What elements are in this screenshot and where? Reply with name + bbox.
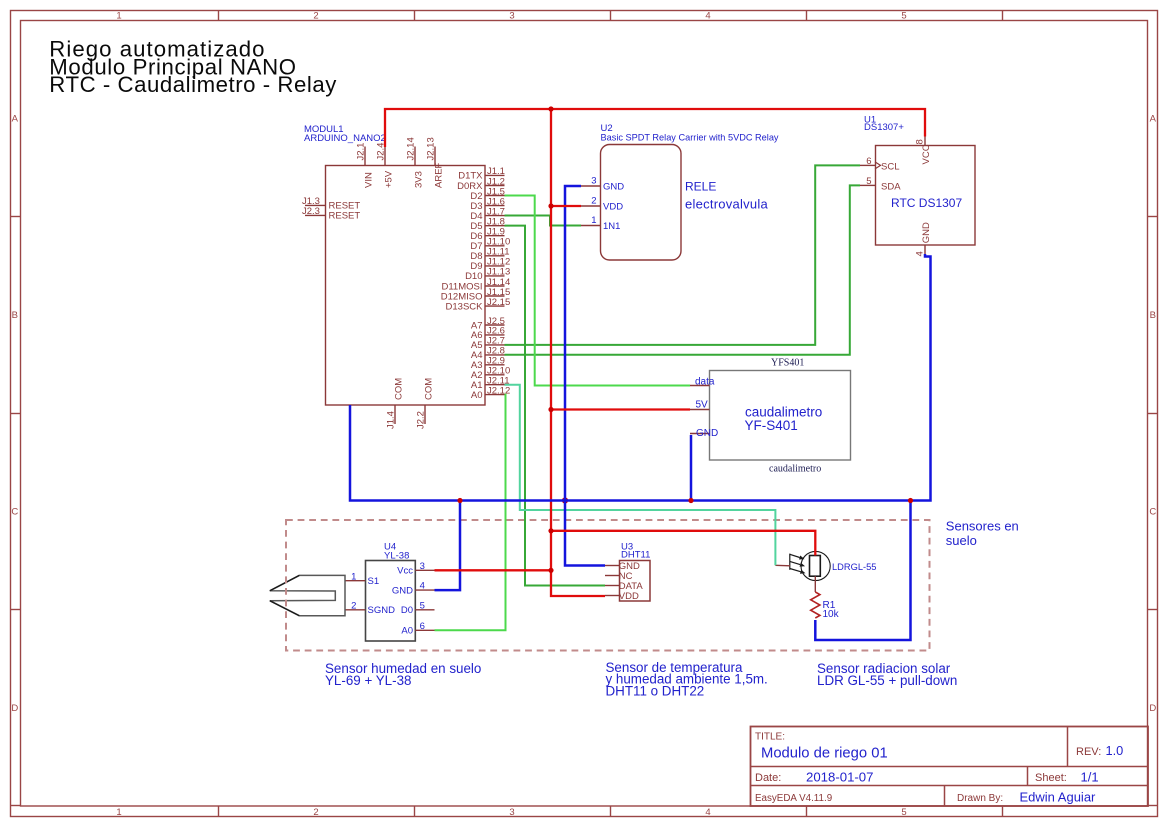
svg-text:1: 1 [591,215,596,226]
svg-text:C: C [1149,507,1156,518]
sensor board U4 YL-38 body [366,561,416,642]
junction red rail / U4 Vcc branch [548,568,553,573]
svg-text:Edwin Aguiar: Edwin Aguiar [1020,790,1097,805]
svg-text:8: 8 [915,139,926,144]
MODUL1 right digital pins D1TX..D13SCK with labels J1.1..J2.15 [441,166,510,312]
svg-text:REV:: REV: [1076,746,1101,758]
svg-text:VCC: VCC [921,144,932,164]
caption Sensor de temperatura [606,660,768,699]
svg-text:J2.1: J2.1 [356,143,367,161]
svg-text:YL-69 + YL-38: YL-69 + YL-38 [325,673,411,688]
U4 right pins 3 Vcc / 4 GND / 5 D0 / 6 A0 [392,561,435,637]
wire green A5 to U1 SCL [505,165,861,345]
svg-text:DS1307+: DS1307+ [864,122,904,133]
svg-text:GND: GND [603,181,624,192]
caption Sensor radiacion solar [817,661,957,688]
title block TITLE field [755,732,888,762]
svg-text:GND: GND [392,586,413,597]
svg-text:1: 1 [116,10,121,21]
svg-text:A0: A0 [401,626,413,637]
svg-text:AREF: AREF [433,162,444,188]
svg-text:RESET: RESET [329,211,361,222]
svg-text:5: 5 [901,807,906,818]
U1 pin 5 SDA [860,176,901,193]
svg-text:J2.2: J2.2 [416,411,427,429]
svg-text:1/1: 1/1 [1081,769,1099,784]
svg-text:4: 4 [705,807,710,818]
junction blue bus / U4 GND [457,498,462,503]
svg-text:J2.13: J2.13 [426,137,437,160]
svg-text:1: 1 [351,571,356,582]
YFS401 net name text caudalimetro YF-S401 [745,405,823,434]
svg-text:J2.15: J2.15 [487,297,510,308]
svg-text:RTC DS1307: RTC DS1307 [891,196,962,210]
title block [750,726,1148,806]
U3 reference labels [621,541,650,560]
svg-text:ARDUINO_NANO2: ARDUINO_NANO2 [304,133,386,144]
svg-text:YL-38: YL-38 [384,551,409,562]
svg-text:DHT11: DHT11 [621,550,650,561]
svg-text:COM: COM [423,378,434,400]
svg-text:5V: 5V [696,399,709,410]
svg-text:B: B [1150,310,1156,321]
title block Sheet field [1035,769,1099,784]
svg-text:4: 4 [420,581,425,592]
svg-text:A0: A0 [471,390,483,401]
svg-text:VDD: VDD [619,591,639,602]
svg-text:RTC - Caudalimetro - Relay: RTC - Caudalimetro - Relay [49,72,337,97]
svg-text:2018-01-07: 2018-01-07 [806,769,873,784]
svg-text:SGND: SGND [368,605,396,616]
wire blue U4 GND to bus [435,501,461,591]
wire green D4 to U2 1N1 [505,216,582,226]
svg-text:J2.12: J2.12 [487,385,510,396]
svg-text:10k: 10k [823,609,840,620]
U1 pin 4 GND bottom [915,222,932,256]
flow meter YFS401 body [710,371,851,461]
svg-text:B: B [12,310,18,321]
LDR pin stubs [775,565,815,592]
junction red rail / YFS401 5V [548,407,553,412]
svg-text:SDA: SDA [881,182,901,193]
svg-text:S1: S1 [368,576,380,587]
U1 net name text RTC DS1307 [891,196,962,210]
svg-text:D: D [1149,703,1156,714]
resistor R1 10k [811,592,840,620]
svg-text:D: D [11,703,18,714]
wire green D5 to U3 DATA [505,226,606,586]
wire light green A0 to U4 A0 [435,395,506,631]
wire red power rail vertical [551,109,605,596]
svg-text:Sensores en: Sensores en [946,519,1019,534]
wire blue U3 GND to bus [565,501,605,566]
MODUL1 right analog pins A7..A0 with labels J2.5..J2.12 [471,316,510,401]
svg-text:SCL: SCL [881,162,899,173]
wire green A4 to U1 SDA [505,185,861,354]
U2 pins 3 GND / 2 VDD / 1 1N1 [581,176,624,232]
title block Date field [755,769,873,784]
svg-text:RELE: RELE [685,180,716,194]
svg-text:2: 2 [591,196,596,207]
wire +5V top red bus from MODUL1 +5V to U1 VCC [385,109,925,147]
svg-text:YFS401: YFS401 [771,358,804,369]
svg-text:4: 4 [705,10,710,21]
svg-text:YF-S401: YF-S401 [745,418,798,433]
svg-text:GND: GND [696,428,718,439]
wire red branch to U4 Vcc [435,569,552,571]
svg-text:+5V: +5V [383,170,394,188]
svg-text:A: A [12,114,19,125]
svg-text:3: 3 [420,561,425,572]
U2 reference labels [601,123,779,143]
dashed region Sensores en suelo [286,519,1019,651]
title block EasyEDA version [755,793,832,804]
svg-text:Date:: Date: [755,772,781,784]
sensor U3 DHT11 body [620,561,651,602]
svg-text:3: 3 [509,807,514,818]
svg-text:caudalimetro: caudalimetro [769,464,821,475]
svg-text:Sheet:: Sheet: [1035,772,1067,784]
svg-text:J2.14: J2.14 [406,137,417,160]
svg-text:Modulo de riego 01: Modulo de riego 01 [761,746,888,762]
svg-text:GND: GND [921,222,932,243]
svg-text:VDD: VDD [603,201,623,212]
svg-text:1N1: 1N1 [603,221,620,232]
svg-text:DHT11 o DHT22: DHT11 o DHT22 [606,683,705,698]
U1 pin 8 VCC top [915,136,932,165]
soil probe fork symbol [270,575,345,615]
MODUL1 bottom pins COM COM with labels J1.4 J2.2 [386,378,435,429]
MODUL1 left RESET pins J1.3 J2.3 [302,196,360,222]
wire blue R1 bottom to bus [815,501,910,641]
svg-text:6: 6 [866,156,871,167]
MODUL1 top pins VIN +5V 3V3 AREF with labels J2.1 J2.4 J2.14 J2.13 [356,137,445,188]
svg-text:J2.3: J2.3 [302,206,320,217]
wire mint A1 to LDR [505,385,776,566]
U1 reference labels [864,115,904,133]
svg-text:5: 5 [420,600,425,611]
svg-text:5: 5 [866,176,871,187]
svg-text:1: 1 [116,807,121,818]
caption Sensor humedad en suelo [325,661,481,688]
svg-text:1.0: 1.0 [1106,743,1124,758]
svg-text:LDR GL-55 + pull-down: LDR GL-55 + pull-down [817,673,957,688]
svg-text:COM: COM [393,378,404,400]
svg-text:VIN: VIN [363,172,374,188]
wire light green D2 to YFS401 data [505,196,691,386]
svg-text:Vcc: Vcc [397,566,413,577]
svg-text:2: 2 [313,807,318,818]
YFS401 serif labels [769,358,821,475]
svg-text:2: 2 [313,10,318,21]
junction red rail / top bus [548,106,553,111]
svg-text:TITLE:: TITLE: [755,732,785,743]
svg-text:D13SCK: D13SCK [446,301,484,312]
svg-text:electrovalvula: electrovalvula [685,197,769,212]
svg-text:data: data [695,376,715,387]
wire red branch to U2 VDD [551,205,581,207]
MODUL1 reference labels [304,124,386,144]
relay module U2 Basic SPDT Relay Carrier body [601,145,682,261]
title block REV field [1076,743,1123,758]
junction blue bus / YFS401 GND [688,498,693,503]
module MODUL1 ARDUINO_NANO2 body [326,166,486,406]
U1 pin 6 SCL [860,156,899,173]
svg-text:suelo: suelo [946,533,977,548]
RTC U1 DS1307 body [876,146,976,246]
svg-text:C: C [11,507,18,518]
LDR label LDRGL-55 [832,562,876,572]
svg-text:A: A [1150,114,1157,125]
svg-text:D0: D0 [401,605,413,616]
svg-text:Basic SPDT Relay Carrier with: Basic SPDT Relay Carrier with 5VDC Relay [601,133,779,143]
svg-text:3: 3 [509,10,514,21]
YFS401 pins data / 5V / GND [690,376,718,439]
svg-text:3V3: 3V3 [413,171,424,188]
junction blue bus / U2 U3 GND (under wires) [562,497,568,503]
svg-text:Drawn By:: Drawn By: [957,793,1003,804]
svg-text:6: 6 [420,621,425,632]
wire blue YFS401 GND to bus [690,435,693,501]
svg-text:EasyEDA V4.11.9: EasyEDA V4.11.9 [755,793,832,804]
wire blue U2 GND to bus [565,186,581,501]
junction blue bus / R1 return [908,498,913,503]
title block Drawn By field [957,790,1096,805]
wire blue ground bus [350,254,931,501]
wire red branch to YFS401 5V [551,408,690,410]
svg-text:3: 3 [591,176,596,187]
junction red rail / LDR branch [548,528,553,533]
U3 pins GND NC DATA VDD [605,561,643,602]
svg-text:5: 5 [901,10,906,21]
junction red rail / U2 VDD [548,203,553,208]
svg-text:2: 2 [351,600,356,611]
U4 left pins 1 S1 / 2 SGND [346,571,396,616]
svg-text:J1.4: J1.4 [386,411,397,429]
wire red branch to LDR top [551,531,815,556]
U4 reference labels [384,542,409,562]
svg-text:LDRGL-55: LDRGL-55 [832,562,876,572]
U2 net name text RELE electrovalvula [685,180,769,212]
photoresistor LDR GL-55 symbol [790,551,830,580]
sheet title text [49,37,337,98]
